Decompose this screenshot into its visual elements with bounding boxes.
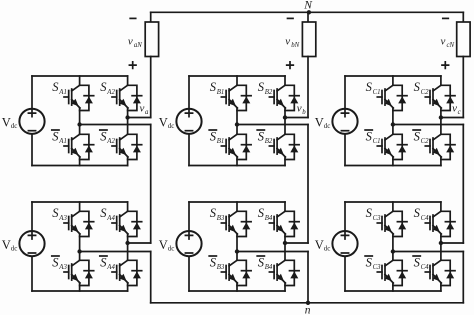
svg-text:S: S — [414, 80, 421, 94]
wire: leg of S_B4 emitter to midpoint — [284, 237, 286, 244]
svg-text:S: S — [258, 80, 265, 94]
IGBT Sbar_B1 with antiparallel diode — [221, 134, 251, 159]
svg-text:b: b — [302, 109, 306, 116]
wire: leg of S_C4 collector — [440, 202, 442, 211]
svg-text:v: v — [140, 103, 145, 115]
dc source V_dc of cell C2 — [332, 231, 357, 256]
cell C2 left rail wire lower — [344, 256, 346, 291]
IGBT S_B2 with antiparallel diode — [269, 85, 299, 110]
wire: leg of Sbar_C4 emitter to bottom rail — [440, 286, 442, 292]
svg-text:A3: A3 — [58, 264, 67, 271]
IGBT Sbar_A2 with antiparallel diode — [112, 134, 142, 159]
svg-text:S: S — [210, 129, 217, 143]
junction dot left midpoint cell A2 — [77, 249, 81, 253]
wire: leg of S_C3 emitter to midpoint — [392, 237, 394, 252]
junction dot left midpoint cell A1 — [77, 122, 81, 126]
wire: leg of S_A3 collector — [79, 202, 81, 211]
svg-text:B1: B1 — [217, 89, 225, 96]
wire: node v_b to right midpoint — [285, 117, 308, 119]
IGBT Sbar_B2 with antiparallel diode — [269, 134, 299, 159]
svg-text:v: v — [285, 35, 290, 47]
svg-text:A1: A1 — [58, 89, 67, 96]
svg-text:S: S — [100, 80, 107, 94]
svg-text:S: S — [414, 129, 421, 143]
wire: leg midpoint to Sbar_B3 collector — [236, 252, 238, 260]
svg-text:dc: dc — [324, 122, 331, 130]
svg-text:A2: A2 — [106, 89, 115, 96]
junction dot left midpoint cell C1 — [391, 122, 395, 126]
cell C2 left rail wire upper — [344, 202, 346, 231]
svg-text:V: V — [2, 116, 11, 130]
IGBT Sbar_C1 with antiparallel diode — [377, 134, 407, 159]
wire: leg of S_B4 collector — [284, 202, 286, 211]
wire: bottom cell right midpoint link phase B — [285, 242, 308, 244]
wire: load stem down to node v_b — [307, 57, 309, 118]
wire: cascade vertical between cells phase A — [150, 125, 152, 244]
svg-text:v: v — [452, 103, 457, 115]
wire: leg of S_C4 emitter to midpoint — [440, 237, 442, 244]
cell C1 bottom rail wire — [345, 165, 441, 167]
wire: leg of S_A2 emitter to midpoint — [127, 111, 129, 118]
wire: leg of Sbar_B2 emitter to bottom rail — [284, 160, 286, 166]
svg-text:S: S — [258, 255, 265, 269]
wire: leg of S_B3 collector — [236, 202, 238, 211]
wire: top bus of node N — [151, 11, 464, 13]
svg-text:v: v — [441, 35, 446, 47]
IGBT Sbar_A3 with antiparallel diode — [64, 260, 94, 285]
IGBT S_A1 with antiparallel diode — [64, 85, 94, 110]
wire: leg midpoint to Sbar_C3 collector — [392, 252, 394, 260]
svg-text:B2: B2 — [265, 89, 273, 96]
svg-text:S: S — [100, 129, 107, 143]
svg-text:S: S — [366, 255, 373, 269]
cell B1 top rail wire — [189, 75, 285, 77]
wire: cascade vertical between cells phase B — [307, 125, 309, 244]
cell C1 top rail wire — [345, 75, 441, 77]
label - (minus) of v_aN — [130, 17, 136, 19]
wire: leg midpoint to Sbar_A1 collector — [79, 125, 81, 134]
svg-text:cN: cN — [447, 42, 455, 49]
svg-text:S: S — [414, 255, 421, 269]
svg-text:S: S — [210, 206, 217, 220]
cell C1 left rail wire lower — [344, 134, 346, 166]
junction dot right midpoint cell C2 — [439, 241, 443, 245]
svg-text:B3: B3 — [217, 215, 225, 222]
wire: leg of Sbar_A4 emitter to bottom rail — [127, 286, 129, 292]
svg-text:c: c — [458, 109, 461, 116]
wire: node v_a to right midpoint — [128, 117, 151, 119]
svg-text:V: V — [159, 238, 168, 252]
IGBT S_B3 with antiparallel diode — [221, 211, 251, 236]
svg-text:B2: B2 — [265, 138, 273, 145]
node N junction dot — [307, 10, 311, 14]
cell A2 left rail wire lower — [31, 256, 33, 291]
cell A1 left rail wire lower — [31, 134, 33, 166]
svg-text:C4: C4 — [421, 264, 430, 271]
cell B1 left rail wire lower — [188, 134, 190, 166]
wire: leg of Sbar_A3 emitter to bottom rail — [79, 286, 81, 292]
svg-text:S: S — [52, 255, 59, 269]
wire: leg of S_C2 collector — [440, 76, 442, 85]
svg-text:aN: aN — [134, 42, 142, 49]
cell B2 left rail wire lower — [188, 256, 190, 291]
wire: leg of S_B2 emitter to midpoint — [284, 111, 286, 118]
cell C2 bottom rail wire — [345, 290, 441, 292]
svg-text:V: V — [315, 116, 324, 130]
dc source V_dc of cell B1 — [176, 109, 201, 134]
cell B2 top rail wire — [189, 201, 285, 203]
wire: leg of Sbar_B1 emitter to bottom rail — [236, 160, 238, 166]
cell A1 top rail wire — [32, 75, 128, 77]
IGBT Sbar_B3 with antiparallel diode — [221, 260, 251, 285]
wire: leg of S_C1 collector — [392, 76, 394, 85]
wire: leg of Sbar_A1 emitter to bottom rail — [79, 160, 81, 166]
wire: leg midpoint to Sbar_C4 collector — [440, 243, 442, 260]
svg-text:v: v — [297, 103, 302, 115]
IGBT Sbar_C2 with antiparallel diode — [425, 134, 455, 159]
cell A2 top rail wire — [32, 201, 128, 203]
wire: leg of S_C3 collector — [392, 202, 394, 211]
wire: leg of S_A1 collector — [79, 76, 81, 85]
dc source V_dc of cell A1 — [19, 109, 44, 134]
svg-text:N: N — [303, 0, 313, 11]
cell B2 left rail wire upper — [188, 202, 190, 231]
wire: leg of S_A4 emitter to midpoint — [127, 237, 129, 244]
wire: leg midpoint to Sbar_B4 collector — [284, 243, 286, 260]
svg-text:C3: C3 — [373, 215, 382, 222]
IGBT Sbar_A1 with antiparallel diode — [64, 134, 94, 159]
svg-text:S: S — [52, 80, 59, 94]
label + (plus) of v_cN — [442, 62, 449, 69]
wire: load stem down to node v_a — [150, 57, 152, 118]
junction dot right midpoint cell B2 — [283, 241, 287, 245]
svg-text:C4: C4 — [421, 215, 430, 222]
svg-text:S: S — [258, 206, 265, 220]
wire: leg of Sbar_B3 emitter to bottom rail — [236, 286, 238, 292]
cell A2 bottom rail wire — [32, 290, 128, 292]
label + (plus) of v_aN — [129, 62, 136, 69]
wire: load aN top stem — [150, 12, 152, 22]
svg-text:B3: B3 — [217, 264, 225, 271]
svg-text:a: a — [145, 109, 149, 116]
IGBT S_A3 with antiparallel diode — [64, 211, 94, 236]
wire: top cell left midpoint rail to cascade — [80, 124, 151, 126]
svg-text:C1: C1 — [373, 138, 381, 145]
junction dot left midpoint cell B2 — [235, 249, 239, 253]
wire: cascade vertical between cells phase C — [462, 125, 464, 244]
svg-text:S: S — [366, 129, 373, 143]
junction dot right midpoint cell A2 — [125, 241, 129, 245]
wire: leg of Sbar_C2 emitter to bottom rail — [440, 160, 442, 166]
wire: leg of S_B2 collector — [284, 76, 286, 85]
wire: load stem down to node v_c — [462, 57, 464, 118]
wire: leg of Sbar_C3 emitter to bottom rail — [392, 286, 394, 292]
wire: top cell left midpoint rail to cascade — [237, 124, 308, 126]
wire: bottom bus of node n — [151, 302, 464, 304]
load resistor v_bN — [302, 22, 315, 57]
wire: stem down to n bus phase A — [150, 252, 152, 303]
wire: leg of Sbar_A2 emitter to bottom rail — [127, 160, 129, 166]
cell C2 top rail wire — [345, 201, 441, 203]
wire: leg of S_C1 emitter to midpoint — [392, 111, 394, 125]
wire: leg of S_C2 emitter to midpoint — [440, 111, 442, 118]
wire: leg midpoint to Sbar_A2 collector — [127, 118, 129, 134]
wire: leg of Sbar_C1 emitter to bottom rail — [392, 160, 394, 166]
svg-text:S: S — [100, 206, 107, 220]
wire: load cN top stem — [462, 12, 464, 22]
svg-text:dc: dc — [11, 244, 18, 252]
svg-text:A4: A4 — [106, 264, 115, 271]
IGBT S_C3 with antiparallel diode — [377, 211, 407, 236]
svg-text:S: S — [210, 255, 217, 269]
IGBT S_A2 with antiparallel diode — [112, 85, 142, 110]
svg-text:dc: dc — [168, 244, 175, 252]
svg-text:S: S — [366, 80, 373, 94]
load resistor v_aN — [145, 22, 158, 57]
svg-text:S: S — [258, 129, 265, 143]
wire: bottom cell right midpoint link phase A — [128, 242, 151, 244]
IGBT S_C2 with antiparallel diode — [425, 85, 455, 110]
wire: bottom cell left midpoint rail phase A — [80, 251, 151, 253]
cell A1 bottom rail wire — [32, 165, 128, 167]
wire: leg of S_A1 emitter to midpoint — [79, 111, 81, 125]
svg-text:S: S — [52, 206, 59, 220]
wire: leg of Sbar_B4 emitter to bottom rail — [284, 286, 286, 292]
wire: leg midpoint to Sbar_B1 collector — [236, 125, 238, 134]
svg-text:S: S — [52, 129, 59, 143]
label + (plus) of v_bN — [287, 62, 294, 69]
svg-text:A4: A4 — [106, 215, 115, 222]
svg-text:dc: dc — [11, 122, 18, 130]
svg-text:A3: A3 — [58, 215, 67, 222]
junction dot left midpoint cell B1 — [235, 122, 239, 126]
svg-text:A1: A1 — [58, 138, 67, 145]
dc source V_dc of cell C1 — [332, 109, 357, 134]
label - (minus) of v_cN — [443, 17, 449, 19]
wire: leg of S_B1 emitter to midpoint — [236, 111, 238, 125]
svg-text:dc: dc — [324, 244, 331, 252]
IGBT S_B1 with antiparallel diode — [221, 85, 251, 110]
cell A1 left rail wire upper — [31, 76, 33, 109]
IGBT Sbar_B4 with antiparallel diode — [269, 260, 299, 285]
wire: leg midpoint to Sbar_C1 collector — [392, 125, 394, 134]
wire: leg midpoint to Sbar_A3 collector — [79, 252, 81, 260]
wire: leg midpoint to Sbar_C2 collector — [440, 118, 442, 134]
svg-text:S: S — [366, 206, 373, 220]
svg-text:bN: bN — [291, 42, 299, 49]
svg-text:C3: C3 — [373, 264, 382, 271]
wire: bottom cell right midpoint link phase C — [441, 242, 463, 244]
cell B1 bottom rail wire — [189, 165, 285, 167]
IGBT S_C4 with antiparallel diode — [425, 211, 455, 236]
IGBT S_B4 with antiparallel diode — [269, 211, 299, 236]
svg-text:S: S — [414, 206, 421, 220]
wire: node v_c to right midpoint — [441, 117, 463, 119]
wire: leg of S_A4 collector — [127, 202, 129, 211]
IGBT S_C1 with antiparallel diode — [377, 85, 407, 110]
svg-text:B4: B4 — [265, 264, 273, 271]
svg-text:C1: C1 — [373, 89, 381, 96]
wire: leg of S_A2 collector — [127, 76, 129, 85]
junction dot right midpoint cell C1 — [439, 115, 443, 119]
svg-text:dc: dc — [168, 122, 175, 130]
cell B2 bottom rail wire — [189, 290, 285, 292]
svg-text:v: v — [128, 35, 133, 47]
svg-text:V: V — [159, 116, 168, 130]
wire: leg of S_A3 emitter to midpoint — [79, 237, 81, 252]
label - (minus) of v_bN — [288, 17, 294, 19]
svg-text:S: S — [100, 255, 107, 269]
wire: leg of S_B1 collector — [236, 76, 238, 85]
junction dot right midpoint cell B1 — [283, 115, 287, 119]
junction dot left midpoint cell C2 — [391, 249, 395, 253]
svg-text:n: n — [305, 305, 311, 315]
wire: leg midpoint to Sbar_A4 collector — [127, 243, 129, 260]
dc source V_dc of cell A2 — [19, 231, 44, 256]
wire: stem down to n bus phase C — [462, 252, 464, 303]
junction dot right midpoint cell A1 — [125, 115, 129, 119]
wire: bottom cell left midpoint rail phase C — [393, 251, 463, 253]
wire: leg of S_B3 emitter to midpoint — [236, 237, 238, 252]
load resistor v_cN — [457, 22, 470, 57]
svg-text:V: V — [2, 238, 11, 252]
wire: top cell left midpoint rail to cascade — [393, 124, 463, 126]
svg-text:B1: B1 — [217, 138, 225, 145]
node n junction dot — [306, 301, 310, 305]
wire: stem down to n bus phase B — [307, 252, 309, 303]
IGBT Sbar_A4 with antiparallel diode — [112, 260, 142, 285]
wire: leg midpoint to Sbar_B2 collector — [284, 118, 286, 134]
svg-text:C2: C2 — [421, 89, 430, 96]
svg-text:C2: C2 — [421, 138, 430, 145]
svg-text:A2: A2 — [106, 138, 115, 145]
cell A2 left rail wire upper — [31, 202, 33, 231]
svg-text:V: V — [315, 238, 324, 252]
IGBT Sbar_C3 with antiparallel diode — [377, 260, 407, 285]
wire: bottom cell left midpoint rail phase B — [237, 251, 308, 253]
IGBT Sbar_C4 with antiparallel diode — [425, 260, 455, 285]
svg-text:S: S — [210, 80, 217, 94]
IGBT S_A4 with antiparallel diode — [112, 211, 142, 236]
wire: load bN top stem — [307, 12, 309, 22]
cell B1 left rail wire upper — [188, 76, 190, 109]
dc source V_dc of cell B2 — [176, 231, 201, 256]
cell C1 left rail wire upper — [344, 76, 346, 109]
svg-text:B4: B4 — [265, 215, 273, 222]
